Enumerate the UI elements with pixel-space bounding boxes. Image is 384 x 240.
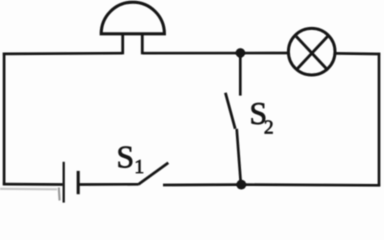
lamp L: circle with X: [288, 28, 335, 75]
svg-text:1: 1: [134, 156, 144, 178]
battery: short plate (negative): [77, 171, 80, 194]
wire: bottom far-left segment (corner to battery): [3, 183, 63, 186]
bell (electric bell symbol): dome: [101, 2, 164, 34]
switch S1 lever: [138, 163, 168, 185]
label S2: [249, 95, 273, 138]
svg-text:S: S: [116, 139, 134, 175]
wire: bottom right segment (junction to right corner): [241, 183, 380, 186]
wire: top left segment: [3, 52, 123, 55]
wire: bottom left segment (battery to switch S1): [80, 183, 139, 186]
wire: top middle segment (bell to junction to lamp): [142, 52, 288, 55]
wire: bottom middle segment (switch S1 to junction): [163, 183, 241, 186]
wire: top right segment (lamp to right corner): [335, 52, 380, 55]
switch S2 upper wire: [239, 53, 242, 96]
switch S2 lower wire: [237, 129, 241, 185]
junction node (bottom, at S2 branch): [236, 180, 246, 190]
wire: left vertical: [3, 53, 6, 185]
label S1: [116, 139, 144, 178]
junction node (top, at S2 branch): [236, 48, 246, 58]
bell stem left line: [121, 34, 124, 55]
switch S2 lever: [225, 93, 235, 129]
scan ghost below bottom-left wire (decorative): [0, 188, 60, 201]
wire: right vertical: [378, 53, 381, 187]
bell stem right line: [141, 34, 144, 55]
svg-text:2: 2: [264, 118, 274, 139]
battery: long plate (positive): [63, 162, 65, 203]
